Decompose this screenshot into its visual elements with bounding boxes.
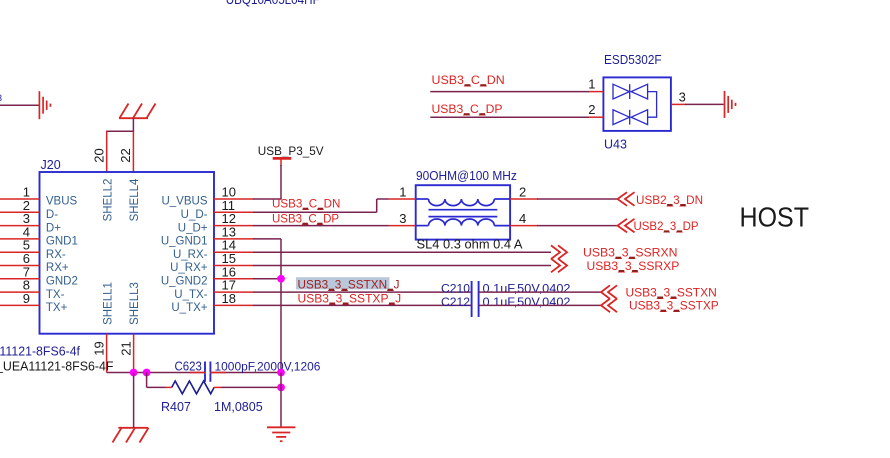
junction at pin 21 — [130, 369, 138, 377]
pin 14 (U_RX-) stub — [214, 251, 254, 253]
highlight on net label — [296, 277, 390, 289]
chassis ground (bottom-left) — [113, 428, 149, 443]
svg-text:U_RX+: U_RX+ — [170, 262, 208, 274]
choke core — [429, 209, 498, 211]
pin 18 (U_TX+) stub — [214, 304, 254, 306]
red stubs at C623 — [190, 372, 205, 374]
resistor R407 — [165, 386, 172, 388]
svg-text:TX+: TX+ — [46, 302, 68, 314]
wire: pin 18 to C212 — [253, 304, 472, 306]
ground (signal ground, top-left) — [39, 91, 50, 119]
off-page chevron USB3_3_SSTXP — [601, 299, 617, 313]
pin 21 (SHELL3) — [133, 334, 135, 373]
pin 17 (U_TX-) stub — [214, 291, 254, 293]
svg-text:U_TX-: U_TX- — [174, 289, 207, 301]
wire: shell ground rail — [107, 372, 281, 374]
svg-text:1: 1 — [399, 185, 406, 200]
svg-text:TX-: TX- — [46, 289, 65, 301]
svg-text:0.1uF,50V,0402: 0.1uF,50V,0402 — [483, 297, 571, 309]
svg-text:3: 3 — [679, 90, 686, 105]
svg-text:_UEA11121-8FS6-4F: _UEA11121-8FS6-4F — [0, 360, 114, 374]
off-page chevron USB3_3_SSRXN — [551, 245, 567, 259]
ground (signal ground, right of U43) — [725, 91, 736, 118]
svg-text:USB3_3_SSTXN_J: USB3_3_SSTXN_J — [298, 278, 400, 292]
choke pin 3 — [389, 225, 416, 227]
pin 16 (U_GND2) stub — [214, 278, 254, 280]
svg-text:U_VBUS: U_VBUS — [161, 196, 207, 208]
pin 6 (RX+) wire — [0, 265, 40, 267]
choke pin 4 — [510, 225, 538, 227]
svg-text:UBQ10A05L04HF: UBQ10A05L04HF — [226, 0, 320, 7]
TVS diode pair (row 2) — [613, 110, 630, 125]
capacitor C210 — [471, 281, 473, 317]
junction at R407 branch — [143, 369, 151, 377]
svg-text:20: 20 — [92, 148, 107, 162]
svg-text:1M,0805: 1M,0805 — [214, 400, 263, 414]
svg-text:1: 1 — [588, 77, 595, 92]
svg-text:4: 4 — [519, 211, 526, 226]
pin 7 (GND2) wire — [0, 278, 40, 280]
svg-text:RX+: RX+ — [46, 262, 69, 274]
pin 20 (SHELL2) — [106, 131, 108, 173]
svg-text:U_TX+: U_TX+ — [171, 302, 207, 314]
svg-text:0.1uF,50V,0402: 0.1uF,50V,0402 — [483, 284, 571, 296]
svg-text:C623: C623 — [175, 360, 202, 374]
pin 13 (U_GND1) stub — [214, 238, 254, 240]
wire: USB2_3_DP — [537, 225, 618, 227]
U43 pin 3 — [671, 103, 686, 105]
off-page chevron USB2_3_DP — [618, 219, 635, 233]
svg-text:D+: D+ — [46, 222, 61, 234]
svg-text:U43: U43 — [604, 138, 627, 152]
pin 15 (U_RX+) stub — [214, 265, 254, 267]
wire: USB3_C_DN to U43 pin 1 — [430, 91, 589, 93]
svg-text:VBUS: VBUS — [46, 196, 78, 208]
svg-text:9: 9 — [23, 291, 30, 306]
wire: pin 3 to ground — [685, 103, 724, 105]
bracket joining diode pairs — [648, 92, 657, 118]
wire: USB3_C_DP (pin 12 to choke pin 3) — [253, 225, 389, 227]
svg-text:D-: D- — [46, 209, 58, 221]
svg-text:2: 2 — [519, 185, 526, 200]
svg-text:GND2: GND2 — [46, 276, 78, 288]
pin 4 (GND1) wire — [0, 238, 40, 240]
wire: USB3_C_DN (pin 11 to choke pin 1) — [253, 211, 377, 213]
pin 3 (D+) wire — [0, 225, 40, 227]
off-page chevron USB3_3_SSRXP — [551, 259, 567, 273]
svg-text:.11121-8FS6-4f: .11121-8FS6-4f — [0, 345, 81, 359]
wire: C210 to chevron — [479, 291, 601, 293]
svg-text:2: 2 — [588, 102, 595, 117]
svg-text:3: 3 — [0, 93, 2, 103]
choke pin 1 — [389, 198, 416, 200]
wire: USB3_3_SSRXP (pin 15) — [253, 265, 551, 267]
off-page chevron USB2_3_DN — [618, 192, 635, 206]
pin 9 (TX+) wire — [0, 304, 40, 306]
svg-text:21: 21 — [118, 341, 133, 355]
U43 pin 2 — [589, 116, 603, 118]
svg-text:USB3_3_SSTXP_J: USB3_3_SSTXP_J — [298, 291, 402, 305]
TVS diode pair (row 1) — [613, 84, 657, 124]
svg-text:18: 18 — [222, 291, 236, 306]
chassis ground (top, shell) — [119, 104, 156, 119]
wire: R407 branch down — [146, 373, 148, 388]
earth ground (bottom-right) — [267, 427, 295, 441]
svg-text:22: 22 — [118, 148, 133, 162]
svg-text:R407: R407 — [161, 400, 191, 414]
svg-text:C212: C212 — [441, 295, 470, 309]
wire: U_VBUS net (pin 10 to power) — [253, 198, 282, 200]
svg-text:RX-: RX- — [46, 249, 66, 261]
pin 8 (TX-) wire — [0, 291, 40, 293]
pin 22 (SHELL4) — [132, 131, 134, 172]
off-page chevron USB3_3_SSTXN — [601, 285, 617, 299]
wire: USB3_C_DP to U43 pin 2 — [430, 116, 589, 118]
svg-text:GND1: GND1 — [46, 236, 78, 248]
wire: drop to earth ground — [280, 373, 282, 428]
wire: USB3_3_SSRXN (pin 14) — [253, 251, 551, 253]
svg-text:3: 3 — [399, 211, 406, 226]
wire: pin21 net down to chassis ground — [133, 373, 135, 428]
svg-text:HOST: HOST — [740, 202, 810, 233]
junction: rail to earth drop — [277, 369, 285, 377]
choke SL4 body — [416, 185, 510, 239]
pin 2 (D-) wire — [0, 211, 40, 213]
svg-text:U_GND2: U_GND2 — [161, 276, 208, 288]
svg-text:SHELL3: SHELL3 — [129, 282, 141, 325]
svg-text:J20: J20 — [41, 158, 61, 172]
wire: pin 17 to C210 — [253, 291, 472, 293]
gap in rail at C623 — [206, 371, 210, 374]
wire: U_GND1 (pin 13) to ground rail — [253, 238, 281, 240]
wire: C212 to chevron — [479, 304, 601, 306]
svg-text:U_RX-: U_RX- — [173, 249, 208, 261]
U43 body — [603, 77, 671, 130]
svg-text:90OHM@100 MHz: 90OHM@100 MHz — [416, 169, 517, 183]
connector J20 body — [40, 172, 215, 334]
svg-text:SHELL4: SHELL4 — [129, 178, 141, 221]
wire: USB2_3_DN — [537, 198, 618, 200]
U43 pin 1 — [589, 91, 603, 93]
wire: net into sheet-edge ground (top-left) — [0, 104, 39, 106]
wire: USB_P3_5V to pin 10 — [280, 158, 282, 166]
svg-text:SL4 0.3 ohm 0.4 A: SL4 0.3 ohm 0.4 A — [417, 238, 524, 252]
svg-text:SHELL2: SHELL2 — [103, 179, 115, 222]
svg-text:1000pF,2000V,1206: 1000pF,2000V,1206 — [215, 362, 321, 374]
choke pin 2 — [510, 198, 538, 200]
svg-text:U_D-: U_D- — [181, 209, 208, 221]
svg-text:U_GND1: U_GND1 — [161, 236, 208, 248]
wire: shell net from chassis ground to pins 20/22 — [132, 118, 134, 131]
choke winding (bottom) — [416, 225, 429, 227]
svg-text:SHELL1: SHELL1 — [103, 282, 115, 325]
svg-text:ESD5302F: ESD5302F — [604, 53, 662, 67]
choke winding (top) — [416, 199, 510, 226]
pin 19 (SHELL1) — [106, 334, 108, 373]
pin 10 (U_VBUS) stub — [214, 198, 254, 200]
pin 11 (U_D-) stub — [214, 211, 254, 213]
junction: R407 to earth drop — [277, 384, 285, 392]
pin 12 (U_D+) stub — [214, 225, 254, 227]
pin 5 (RX-) wire — [0, 251, 40, 253]
svg-text:C210: C210 — [441, 282, 470, 296]
pin 1 (VBUS) wire — [0, 198, 40, 200]
wire: U_GND2 (pin 16) to ground rail — [253, 278, 281, 280]
svg-text:USB_P3_5V: USB_P3_5V — [258, 144, 324, 158]
svg-text:19: 19 — [91, 341, 106, 355]
svg-text:U_D+: U_D+ — [178, 222, 208, 234]
junction: GND at pin 16 — [277, 275, 285, 283]
